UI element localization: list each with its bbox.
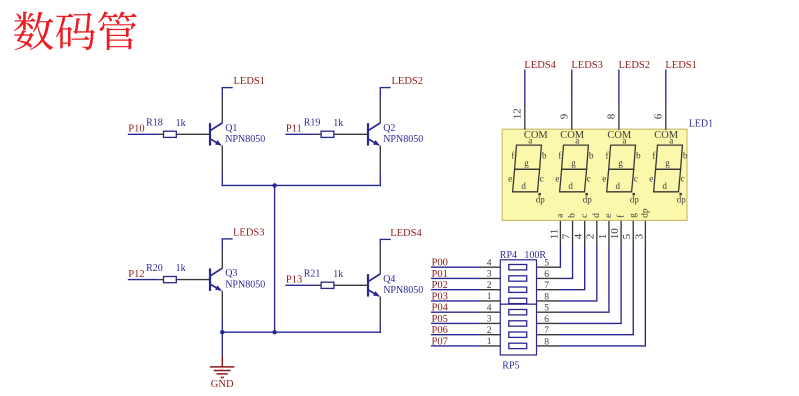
- transistor Q4 collector pin: [379, 246, 381, 274]
- wire LEDS4 horizontal stub: [380, 238, 391, 240]
- wire Q3 emitter to row: [221, 317, 223, 332]
- svg-text:dp: dp: [630, 194, 640, 204]
- svg-text:d: d: [592, 213, 602, 218]
- svg-text:c: c: [634, 174, 638, 184]
- RP pin 8 right row 8: [537, 345, 560, 347]
- display LED1 body (yellow): [502, 129, 687, 220]
- svg-text:P01: P01: [432, 269, 448, 280]
- transistor Q3 emitter stroke: [210, 284, 221, 290]
- svg-text:1k: 1k: [176, 118, 186, 129]
- resistor element 8: [509, 343, 527, 348]
- svg-text:LEDS1: LEDS1: [665, 60, 697, 71]
- transistor Q2 emitter stroke: [368, 139, 379, 145]
- wire segment d horizontal: [559, 300, 597, 302]
- wire P10 net stub: [128, 133, 159, 135]
- svg-text:NPN8050: NPN8050: [383, 134, 423, 145]
- svg-text:LEDS2: LEDS2: [392, 76, 424, 87]
- resistor pack RP5 body: [500, 304, 536, 355]
- wire segment b horizontal: [559, 277, 573, 279]
- svg-text:3: 3: [633, 233, 645, 239]
- svg-text:P03: P03: [432, 291, 448, 302]
- ground bar 3: [217, 373, 228, 375]
- svg-text:1k: 1k: [333, 118, 343, 129]
- svg-text:1k: 1k: [333, 269, 343, 280]
- svg-text:4: 4: [573, 233, 585, 239]
- svg-text:7: 7: [560, 233, 572, 239]
- svg-text:b: b: [568, 213, 578, 218]
- wire LEDS2 horizontal stub: [380, 87, 391, 89]
- resistor R19 left pin: [316, 133, 321, 135]
- wire segment g horizontal: [559, 334, 634, 336]
- display segment pin 5: [632, 221, 634, 245]
- RP pin 4 left row 1: [480, 266, 501, 268]
- svg-text:LED1: LED1: [689, 118, 713, 129]
- svg-text:8: 8: [544, 292, 549, 302]
- RP pin 8 right row 4: [537, 300, 560, 302]
- wire P11 net stub: [285, 133, 316, 135]
- wire LEDS2 vertical stub: [379, 88, 381, 100]
- svg-text:d: d: [568, 181, 573, 191]
- title text 数码管 (red): [14, 11, 137, 50]
- transistor Q2 emitter pin: [379, 146, 381, 172]
- wire to LEDS3: [571, 70, 573, 104]
- display segment pin 3: [644, 221, 646, 245]
- svg-text:R21: R21: [304, 269, 321, 280]
- svg-text:1: 1: [597, 234, 609, 240]
- transistor Q4 emitter arrow: [373, 291, 380, 297]
- resistor R18 right pin + base pin: [176, 133, 210, 135]
- svg-text:P06: P06: [432, 325, 448, 336]
- wire to LEDS1: [665, 70, 667, 104]
- svg-text:Q1: Q1: [225, 123, 237, 134]
- resistor R21 right pin + base pin: [334, 284, 368, 286]
- svg-text:10: 10: [609, 228, 621, 240]
- wire segment f horizontal: [559, 322, 622, 324]
- transistor Q3 emitter pin: [221, 291, 223, 317]
- transistor Q4 collector stroke: [368, 274, 380, 282]
- svg-text:f: f: [558, 151, 561, 161]
- svg-text:COM: COM: [560, 130, 585, 141]
- svg-text:LEDS4: LEDS4: [524, 60, 556, 71]
- svg-text:e: e: [604, 214, 614, 218]
- svg-text:c: c: [540, 174, 544, 184]
- wire segment dp riser: [644, 245, 646, 346]
- svg-text:a: a: [528, 135, 532, 145]
- wire to LEDS2: [618, 70, 620, 104]
- svg-text:a: a: [575, 135, 579, 145]
- display segment pin 1: [608, 221, 610, 245]
- display segment pin 7: [572, 221, 574, 245]
- wire net P07: [431, 345, 480, 347]
- svg-text:b: b: [589, 151, 594, 161]
- resistor element 5: [509, 310, 527, 315]
- RP pin 2 left row 7: [480, 334, 501, 336]
- svg-text:5: 5: [544, 304, 549, 314]
- svg-text:NPN8050: NPN8050: [225, 280, 265, 291]
- wire segment f riser: [620, 245, 622, 323]
- svg-text:c: c: [681, 174, 685, 184]
- svg-text:COM: COM: [607, 130, 632, 141]
- 7-segment digit 3 with COM: [602, 130, 641, 205]
- svg-text:11: 11: [548, 229, 560, 240]
- RP pin 1 left row 8: [480, 345, 501, 347]
- svg-text:8: 8: [606, 113, 618, 119]
- svg-text:P04: P04: [432, 303, 449, 314]
- RP pin 7 right row 7: [537, 334, 560, 336]
- resistor R21 body: [321, 282, 334, 288]
- svg-text:LEDS3: LEDS3: [571, 60, 603, 71]
- svg-text:LEDS4: LEDS4: [390, 228, 422, 239]
- svg-text:d: d: [521, 181, 526, 191]
- wire net P04: [431, 311, 480, 313]
- wire segment g riser: [632, 245, 634, 335]
- RP pin 5 right row 1: [537, 266, 560, 268]
- svg-text:LEDS3: LEDS3: [233, 227, 265, 238]
- svg-text:dp: dp: [583, 194, 593, 204]
- resistor element 1: [509, 265, 527, 270]
- transistor Q1 emitter pin: [221, 146, 223, 172]
- wire LEDS1 horizontal stub: [222, 87, 233, 89]
- svg-text:NPN8050: NPN8050: [383, 285, 423, 296]
- ground bar 2: [214, 370, 231, 372]
- svg-text:3: 3: [487, 315, 492, 325]
- resistor R18 left pin: [158, 133, 163, 135]
- RP pin 5 right row 5: [537, 311, 560, 313]
- display segment pin 10: [620, 221, 622, 245]
- wire Q1 emitter to row: [221, 172, 223, 187]
- display COM pin 6: [665, 104, 667, 130]
- wire Q2 emitter to row: [379, 172, 381, 187]
- resistor R20 right pin + base pin: [176, 279, 210, 281]
- RP pin 3 left row 6: [480, 322, 501, 324]
- svg-text:9: 9: [558, 113, 570, 119]
- svg-text:P00: P00: [432, 258, 448, 269]
- svg-text:P05: P05: [432, 314, 448, 325]
- wire segment b riser: [572, 245, 574, 278]
- wire net P06: [431, 334, 480, 336]
- svg-text:4: 4: [487, 303, 492, 313]
- wire LEDS3 horizontal stub: [222, 238, 233, 240]
- 7-segment digit 2 with COM: [555, 130, 594, 205]
- svg-text:a: a: [669, 135, 673, 145]
- svg-text:RP4: RP4: [500, 250, 517, 261]
- svg-text:8: 8: [544, 337, 549, 347]
- resistor pack RP4 body: [500, 260, 536, 304]
- RP pin 3 left row 2: [480, 277, 501, 279]
- svg-text:e: e: [649, 174, 653, 184]
- svg-text:g: g: [628, 213, 638, 218]
- resistor R18 body: [164, 131, 177, 137]
- 7-segment digit 1 with COM: [508, 130, 548, 205]
- wire emitter row upper: [222, 184, 381, 186]
- svg-text:2: 2: [585, 234, 597, 240]
- transistor Q4 base bar: [367, 274, 369, 297]
- resistor element 2: [509, 276, 527, 281]
- 7-segment digit 4 with COM: [649, 130, 688, 205]
- transistor Q2 base bar: [367, 123, 369, 146]
- transistor Q2 collector pin: [379, 99, 381, 123]
- wire P13 net stub: [285, 284, 316, 286]
- wire segment dp horizontal: [559, 345, 646, 347]
- wire to ground: [221, 332, 223, 356]
- ground bar 4: [221, 376, 224, 378]
- transistor Q2 collector stroke: [368, 123, 380, 131]
- wire segment e horizontal: [559, 311, 609, 313]
- transistor Q1 collector stroke: [210, 123, 222, 131]
- svg-text:6: 6: [544, 315, 549, 325]
- svg-text:b: b: [542, 151, 547, 161]
- svg-text:R20: R20: [146, 263, 163, 274]
- svg-text:6: 6: [652, 113, 664, 119]
- wire net P05: [431, 322, 480, 324]
- wire net P03: [431, 300, 480, 302]
- transistor Q2 emitter arrow: [373, 140, 380, 146]
- transistor Q4 emitter pin: [379, 297, 381, 323]
- resistor element 6: [509, 321, 527, 326]
- resistor element 3: [509, 287, 527, 292]
- transistor Q3 base bar: [209, 268, 211, 291]
- svg-text:f: f: [511, 151, 514, 161]
- RP pin 2 left row 3: [480, 289, 501, 291]
- svg-text:e: e: [602, 174, 606, 184]
- svg-text:P07: P07: [432, 336, 448, 347]
- resistor element 4: [509, 298, 527, 303]
- svg-text:b: b: [636, 151, 641, 161]
- junction dot upper row: [272, 183, 276, 187]
- svg-text:P02: P02: [432, 280, 448, 291]
- transistor Q3 collector pin: [221, 250, 223, 269]
- wire P12 net stub: [128, 279, 159, 281]
- svg-text:P11: P11: [286, 124, 302, 135]
- ground bar 1: [210, 366, 235, 368]
- svg-text:1k: 1k: [176, 263, 186, 274]
- svg-text:e: e: [508, 174, 512, 184]
- transistor Q1 emitter stroke: [210, 139, 221, 145]
- transistor Q4 emitter stroke: [368, 290, 379, 296]
- svg-text:7: 7: [544, 281, 549, 291]
- svg-text:P10: P10: [128, 124, 144, 135]
- svg-text:3: 3: [487, 270, 492, 280]
- transistor Q3 emitter arrow: [215, 285, 222, 291]
- svg-text:g: g: [618, 158, 623, 168]
- transistor Q1 base bar: [209, 123, 211, 146]
- wire LEDS4 vertical stub: [379, 239, 381, 245]
- svg-text:7: 7: [544, 326, 549, 336]
- resistor element 7: [509, 332, 527, 337]
- display segment pin 4: [584, 221, 586, 245]
- wire segment d riser: [596, 245, 598, 301]
- transistor Q1 collector pin: [221, 99, 223, 123]
- wire segment c horizontal: [559, 289, 585, 291]
- wire emitter row lower: [222, 331, 381, 333]
- wire Q4 emitter to row: [379, 323, 381, 333]
- svg-text:c: c: [580, 214, 590, 218]
- svg-text:LEDS2: LEDS2: [619, 60, 651, 71]
- svg-text:c: c: [587, 174, 591, 184]
- RP pin 4 left row 5: [480, 311, 501, 313]
- svg-text:RP5: RP5: [502, 360, 519, 371]
- resistor R20 left pin: [158, 279, 163, 281]
- svg-text:g: g: [571, 158, 576, 168]
- svg-text:Q4: Q4: [383, 274, 395, 285]
- svg-text:f: f: [606, 151, 609, 161]
- wire LEDS3 vertical stub: [221, 239, 223, 250]
- svg-text:NPN8050: NPN8050: [225, 134, 265, 145]
- wire segment a horizontal: [559, 266, 561, 268]
- svg-text:LEDS1: LEDS1: [234, 76, 266, 87]
- svg-text:g: g: [665, 158, 670, 168]
- wire vertical bus to lower row: [274, 185, 276, 332]
- svg-text:1: 1: [487, 337, 492, 347]
- svg-text:2: 2: [487, 281, 492, 291]
- wire segment c riser: [584, 245, 586, 290]
- svg-text:dp: dp: [641, 208, 651, 218]
- transistor Q3 collector stroke: [210, 268, 222, 276]
- wire net P01: [431, 277, 480, 279]
- junction dot lower row left: [220, 330, 224, 334]
- svg-text:5: 5: [544, 259, 549, 269]
- wire segment a riser: [559, 245, 561, 267]
- resistor R21 left pin: [316, 284, 321, 286]
- display segment pin 11: [559, 221, 561, 245]
- svg-text:5: 5: [621, 233, 633, 239]
- svg-text:GND: GND: [211, 379, 234, 390]
- resistor R19 right pin + base pin: [334, 133, 368, 135]
- display COM pin 12: [524, 104, 526, 130]
- junction dot lower row middle: [272, 330, 276, 334]
- svg-text:R19: R19: [304, 118, 321, 129]
- RP pin 1 left row 4: [480, 300, 501, 302]
- svg-text:f: f: [652, 151, 655, 161]
- svg-text:Q3: Q3: [225, 268, 237, 279]
- display COM pin 8: [618, 104, 620, 130]
- wire net P02: [431, 289, 480, 291]
- svg-text:dp: dp: [677, 194, 687, 204]
- svg-text:dp: dp: [536, 194, 546, 204]
- svg-text:d: d: [662, 181, 667, 191]
- display COM pin 9: [571, 104, 573, 130]
- svg-text:4: 4: [487, 258, 492, 268]
- svg-text:COM: COM: [654, 130, 679, 141]
- wire net P00: [431, 266, 480, 268]
- svg-text:b: b: [683, 151, 688, 161]
- svg-text:g: g: [524, 158, 529, 168]
- svg-text:Q2: Q2: [383, 123, 395, 134]
- svg-text:a: a: [622, 135, 626, 145]
- transistor Q1 emitter arrow: [215, 140, 222, 146]
- svg-text:6: 6: [544, 270, 549, 280]
- RP pin 7 right row 3: [537, 289, 560, 291]
- RP pin 6 right row 2: [537, 277, 560, 279]
- svg-text:1: 1: [487, 292, 492, 302]
- RP pin 6 right row 6: [537, 322, 560, 324]
- wire to LEDS4: [524, 70, 526, 104]
- svg-text:12: 12: [511, 108, 523, 119]
- resistor R20 body: [164, 277, 177, 283]
- svg-text:R18: R18: [146, 118, 163, 129]
- wire segment e riser: [608, 245, 610, 312]
- svg-text:100R: 100R: [524, 250, 546, 261]
- svg-text:e: e: [555, 174, 559, 184]
- svg-text:P12: P12: [128, 269, 144, 280]
- svg-text:d: d: [615, 181, 620, 191]
- wire LEDS1 vertical stub: [221, 88, 223, 100]
- resistor R19 body: [321, 131, 334, 137]
- ground stem: [221, 356, 223, 367]
- svg-text:2: 2: [487, 326, 492, 336]
- svg-text:P13: P13: [286, 275, 302, 286]
- display segment pin 2: [596, 221, 598, 245]
